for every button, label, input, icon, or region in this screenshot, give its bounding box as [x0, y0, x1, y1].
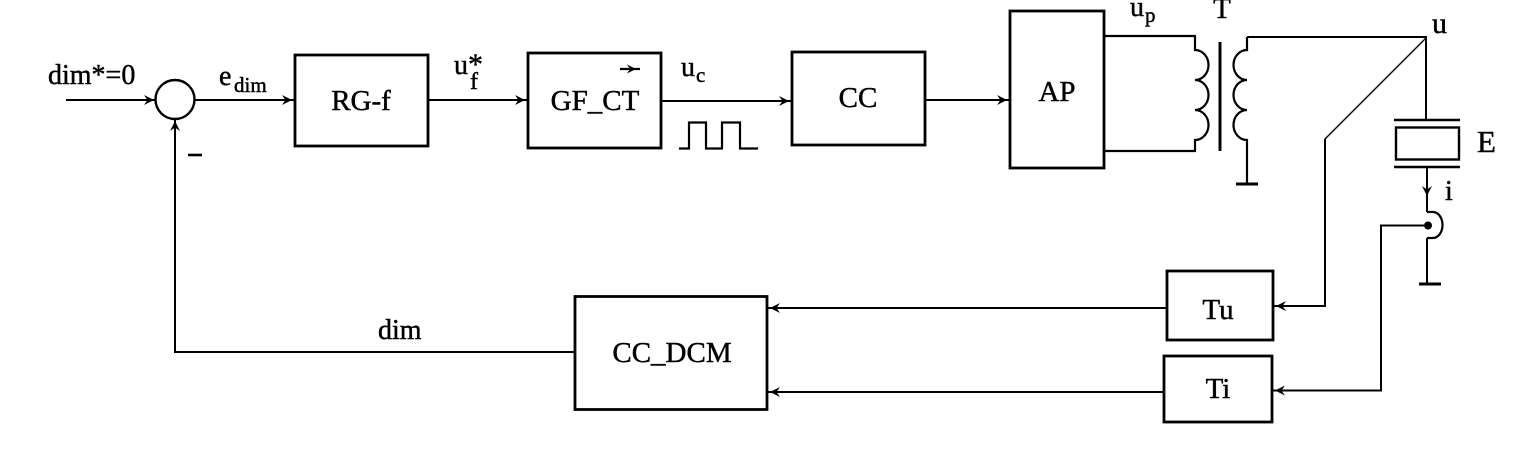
- current sensor loop: [1427, 212, 1443, 238]
- svg-text:u: u: [454, 50, 468, 81]
- svg-text:Ti: Ti: [1206, 373, 1231, 405]
- wire CC to AP: [925, 99, 1010, 101]
- lamp E top electrode line: [1394, 119, 1460, 122]
- block AP: [1010, 11, 1104, 168]
- svg-text:f: f: [470, 69, 478, 95]
- block GF_CT: [528, 53, 661, 148]
- wire summing junction to RG-f: [195, 99, 295, 101]
- wire AP to transformer primary top: [1104, 35, 1196, 37]
- ground under current sensor: [1419, 283, 1441, 286]
- svg-text:e: e: [219, 61, 231, 92]
- wire GF_CT to CC: [661, 100, 792, 102]
- tap wire from dot to Ti: [1272, 226, 1424, 391]
- lamp E bottom electrode line: [1394, 166, 1460, 169]
- square wave symbol: [679, 123, 758, 149]
- feedback wire CC_DCM to summing junction: [175, 120, 575, 352]
- svg-text:T: T: [1213, 0, 1231, 25]
- ground under transformer secondary: [1236, 183, 1258, 186]
- wire Ti to CC_DCM: [767, 391, 1164, 393]
- lamp E body: [1396, 128, 1459, 160]
- wire input to summing junction: [66, 99, 155, 101]
- vertical wire to Tu: [1273, 139, 1325, 306]
- wire sensor to ground: [1426, 238, 1428, 283]
- summing junction: [156, 80, 195, 119]
- wire Tu to CC_DCM: [767, 307, 1167, 309]
- svg-text:E: E: [1477, 124, 1496, 159]
- svg-text:u: u: [681, 52, 695, 83]
- block Ti: [1164, 356, 1272, 422]
- svg-text:dim*=0: dim*=0: [48, 60, 135, 91]
- diagonal wire from node u: [1325, 38, 1426, 139]
- wire RG-f to GF_CT: [428, 99, 528, 101]
- block CC_DCM: [575, 297, 767, 410]
- internal arrow of GF_CT: [620, 68, 640, 70]
- svg-text:u: u: [1130, 0, 1144, 23]
- svg-text:RG-f: RG-f: [331, 85, 391, 117]
- block CC: [792, 52, 925, 145]
- wire AP to transformer primary bottom: [1104, 150, 1196, 152]
- wire transformer secondary to node u: [1247, 36, 1427, 38]
- block RG-f: [295, 55, 428, 146]
- wire node u down to E: [1425, 37, 1427, 120]
- current sensor tap dot: [1424, 222, 1432, 230]
- svg-text:i: i: [1445, 176, 1453, 207]
- svg-text:CC_DCM: CC_DCM: [612, 337, 731, 369]
- transformer T secondary winding: [1234, 37, 1248, 183]
- svg-text:u: u: [1432, 7, 1447, 40]
- svg-text:p: p: [1145, 3, 1156, 27]
- svg-text:AP: AP: [1038, 76, 1075, 108]
- svg-text:dim: dim: [234, 73, 267, 97]
- block Tu: [1167, 271, 1273, 340]
- svg-text:CC: CC: [839, 82, 878, 114]
- svg-text:c: c: [696, 63, 705, 87]
- svg-text:dim: dim: [378, 315, 422, 346]
- wire E down with current arrow: [1426, 167, 1428, 212]
- transformer T primary winding: [1195, 36, 1209, 151]
- svg-text:GF_CT: GF_CT: [551, 85, 640, 117]
- minus sign: [188, 154, 202, 157]
- svg-text:Tu: Tu: [1202, 294, 1233, 326]
- transformer core: [1219, 42, 1222, 151]
